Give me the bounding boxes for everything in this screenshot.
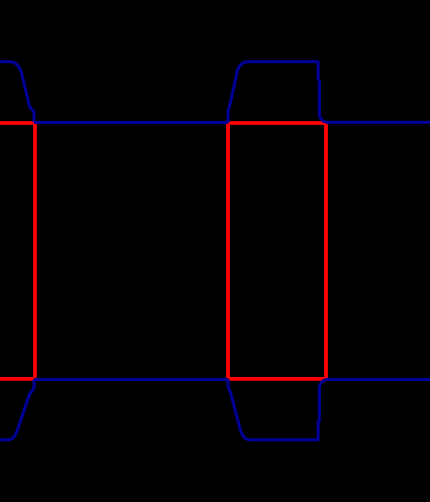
cut line: top edge between panels (34, 121, 228, 124)
cut line: top edge right of center panel (326, 121, 430, 124)
top-left dust flap outline (cropped at left image edge) (0, 62, 34, 123)
bottom-left dust flap outline (cropped at left image edge) (0, 379, 34, 439)
cut line: bottom edge between panels (34, 378, 228, 381)
bottom-center dust flap outline (228, 379, 327, 439)
crease rectangle: left panel (cropped at left image edge) (0, 123, 35, 379)
top-center dust flap outline (228, 62, 327, 123)
cut line: bottom edge right of center panel (326, 378, 430, 381)
crease rectangle: center panel (228, 123, 326, 379)
